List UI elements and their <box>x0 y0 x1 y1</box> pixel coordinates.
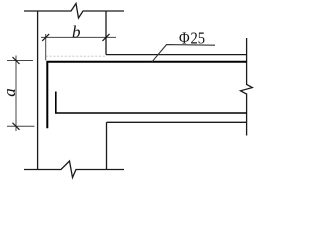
svg-text:b: b <box>72 23 81 42</box>
leader line for rebar label <box>152 45 215 62</box>
beam top face <box>106 54 247 56</box>
right break line with zigzag <box>241 38 253 136</box>
extension line a bottom <box>7 125 35 127</box>
tick a top <box>13 57 20 64</box>
right column face upper <box>105 11 107 55</box>
beam bottom face <box>107 121 247 123</box>
tick b right <box>103 34 110 41</box>
tick a bottom <box>13 123 20 130</box>
right column face lower <box>106 122 108 169</box>
extension line for b at rebar bend <box>45 34 47 60</box>
dimension line b <box>41 36 116 38</box>
top break line with zigzag <box>24 4 124 19</box>
extension line a top <box>7 60 33 62</box>
svg-text:a: a <box>0 88 19 97</box>
bottom rebar with up hook <box>56 92 247 114</box>
bottom break line with zigzag <box>24 161 124 178</box>
svg-text:Φ25: Φ25 <box>179 28 205 47</box>
top rebar with 90deg down hook <box>47 62 246 129</box>
dimension line a <box>15 56 17 132</box>
beam top face hidden continuation through column (faint) <box>46 55 106 57</box>
left column face <box>37 11 39 170</box>
tick b left <box>42 34 49 41</box>
